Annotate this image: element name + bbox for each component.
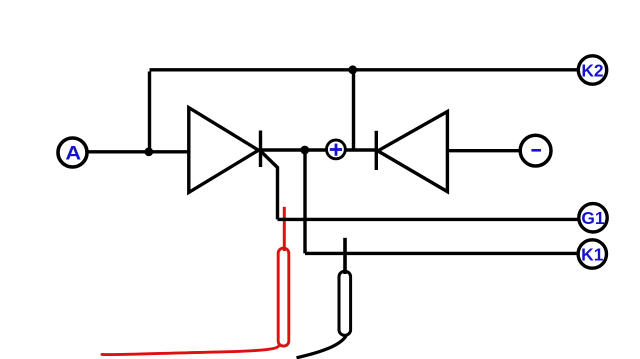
wire gate to terminal G1 [278,218,580,221]
terminal minus circle [520,135,551,166]
node junction on A wire [144,147,153,156]
red probe tip capsule [278,248,289,346]
diode D2 triangle [378,112,448,192]
thyristor gate lead vertical [276,167,279,220]
wire right riser from top bus to plus row [352,72,355,151]
node junction at plus branch [300,146,309,155]
wire terminal A to thyristor anode [87,150,190,153]
wire plus node to diode cathode [347,148,378,151]
svg-text:K1: K1 [581,244,604,264]
black probe tip capsule [339,271,351,335]
black probe cable tail [297,336,347,358]
diode D2 cathode bar [375,131,378,170]
terminal G1 circle [579,204,607,232]
node plus circle [327,140,346,159]
red probe lead wire [283,207,286,251]
wire cathode branch to terminal K1 [305,252,578,255]
terminal minus sign [531,149,541,152]
black probe lead wire [343,238,347,274]
terminal K2 circle [578,56,606,84]
wire cathode branch riser to K1 row [303,150,306,253]
terminal K1 circle [578,240,606,268]
wire diode anode to terminal minus [447,149,519,152]
terminal A label [65,143,81,165]
svg-text:G1: G1 [581,208,605,228]
wire top bus K2 [150,68,578,71]
thyristor gate lead diagonal [260,151,278,168]
node junction on top bus [348,65,357,74]
red probe cable tail [102,346,279,355]
svg-text:K2: K2 [581,60,603,80]
thyristor D1 triangle [189,108,259,193]
wire left riser from node A row to top bus [148,72,151,153]
terminal A circle [58,138,87,167]
svg-text:A: A [65,143,81,165]
thyristor D1 cathode bar [259,131,262,168]
plus sign [330,144,342,156]
wire thyristor cathode to plus node [261,148,327,151]
